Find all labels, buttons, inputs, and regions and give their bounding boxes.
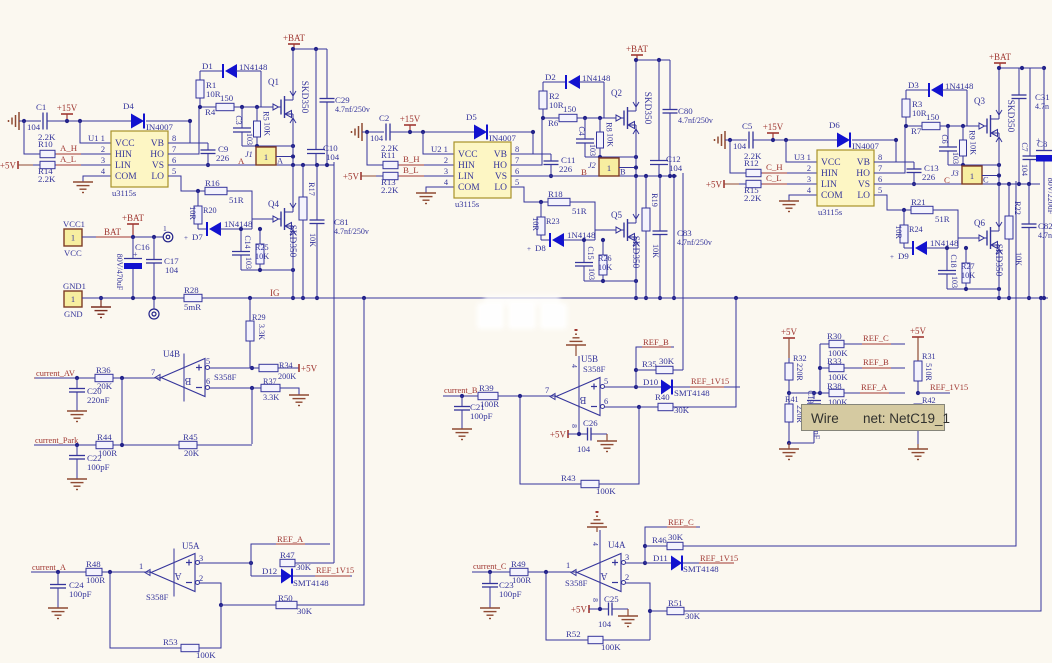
net label A_L [56, 154, 81, 165]
svg-text:1N4148: 1N4148 [567, 230, 596, 240]
power +BAT (BAT node) [122, 213, 145, 237]
junction C9 VS [206, 163, 210, 167]
svg-text:10K: 10K [308, 233, 317, 247]
ground (R41) [779, 443, 799, 460]
svg-text:C15: C15 [586, 246, 595, 259]
wire current_C [472, 571, 510, 573]
junction R44 R45 [120, 443, 124, 447]
capacitor C26 104 [577, 418, 607, 454]
svg-text:R51: R51 [668, 598, 683, 608]
junction R25 bottom [258, 268, 262, 272]
wire VS row [511, 175, 677, 177]
svg-text:1N4148: 1N4148 [582, 73, 611, 83]
junction R35 tap [634, 368, 638, 372]
svg-text:REF_B: REF_B [863, 357, 889, 367]
svg-text:D11: D11 [653, 553, 668, 563]
svg-text:R25: R25 [255, 243, 269, 252]
svg-text:C3: C3 [234, 115, 243, 124]
wire HIN A_H [55, 153, 111, 155]
svg-text:7: 7 [172, 145, 176, 154]
junction VCC tap [78, 119, 82, 123]
svg-text:S358F: S358F [565, 578, 588, 588]
svg-text:HIN: HIN [458, 161, 475, 171]
svg-text:103: 103 [951, 152, 960, 164]
resistor R43 100K [561, 473, 616, 496]
wire VCC pin1 of U1 [80, 121, 111, 143]
svg-text:LIN: LIN [115, 161, 131, 171]
svg-text:R36: R36 [96, 365, 111, 375]
svg-text:R46: R46 [652, 535, 667, 545]
svg-text:R35: R35 [642, 359, 657, 369]
svg-text:5: 5 [172, 167, 176, 176]
wire R21 to gate2 [933, 210, 979, 238]
capacitor C82 4.7nf/250v [1022, 184, 1052, 298]
wire C12 return column [673, 176, 675, 298]
svg-text:1N4148: 1N4148 [239, 62, 268, 72]
diode D4 IN4007 [123, 101, 173, 132]
svg-text:3: 3 [807, 175, 811, 184]
net label REF_1V15 (divider) [929, 383, 968, 393]
wire LIN C_L [761, 183, 817, 185]
junction U5B pin8 [577, 432, 581, 436]
svg-text:HIN: HIN [115, 150, 132, 160]
wire IG bus [82, 297, 184, 299]
resistor R5 10K [254, 107, 272, 146]
junction +BAT C10 [314, 47, 318, 51]
svg-text:C4: C4 [577, 126, 586, 135]
svg-text:1: 1 [566, 561, 570, 570]
wire U5A pin3 [200, 562, 252, 564]
svg-text:10R: 10R [912, 108, 927, 118]
svg-text:20K: 20K [184, 448, 200, 458]
svg-text:30K: 30K [685, 611, 701, 621]
junction R9 top [961, 124, 965, 128]
capacitor C14 103 [232, 229, 253, 270]
svg-text:+: + [133, 250, 138, 259]
svg-text:8: 8 [878, 153, 882, 162]
svg-text:+5V: +5V [301, 364, 318, 374]
wire VCC pin1 of U2 [423, 132, 454, 154]
svg-text:30K: 30K [659, 356, 675, 366]
transistor Q5 SKD350 [611, 176, 640, 298]
junction C24 [56, 570, 60, 574]
net label C_H [762, 162, 787, 173]
svg-text:103: 103 [587, 268, 596, 280]
power +5V (U4A) [571, 605, 589, 615]
svg-text:+5V: +5V [571, 605, 588, 615]
svg-text:2.2K: 2.2K [38, 174, 56, 184]
wire +5V to U5B pin8 [568, 433, 587, 435]
svg-text:220R: 220R [795, 363, 804, 381]
svg-text:+: + [527, 245, 531, 253]
svg-text:C81: C81 [334, 217, 349, 227]
junction D6 VB [894, 138, 898, 142]
svg-text:220nF: 220nF [87, 395, 110, 405]
junction BAT C17 [152, 235, 156, 239]
wire lower source return [947, 288, 999, 290]
svg-text:R52: R52 [566, 629, 581, 639]
wire R16 to gate2 [227, 191, 273, 219]
svg-text:D2: D2 [545, 72, 556, 82]
svg-text:SMT4148: SMT4148 [293, 578, 329, 588]
junction pin3 node C [643, 561, 647, 565]
svg-text:U5A: U5A [182, 541, 200, 551]
power +5V (divider right) [910, 326, 927, 361]
junction R8 top [598, 116, 602, 120]
svg-text:COM: COM [821, 191, 843, 201]
svg-text:Q2: Q2 [611, 88, 622, 98]
wire +5V to R15 [739, 183, 746, 185]
wire sense A vertical [333, 162, 335, 563]
junction node C80 [668, 174, 672, 178]
svg-text:U4A: U4A [608, 540, 626, 550]
resistor R3 10R [902, 99, 927, 126]
ground (input filter B) [352, 123, 363, 141]
junction feedback AV [120, 376, 124, 380]
net label BAT [96, 227, 131, 237]
junction node R22 [1007, 182, 1011, 186]
svg-text:D3: D3 [908, 80, 919, 90]
svg-text:+: + [890, 253, 894, 261]
wire U4A pin3 [626, 562, 646, 564]
svg-text:4.7nf/250v: 4.7nf/250v [678, 116, 713, 125]
svg-text:103: 103 [950, 276, 959, 288]
net label A (left) [238, 156, 245, 166]
wire R37 to ground [280, 388, 299, 395]
svg-text:1N4148: 1N4148 [945, 81, 974, 91]
junction R26 top [601, 238, 605, 242]
junction +15V [65, 119, 69, 123]
svg-text:10K: 10K [255, 252, 269, 261]
wire LO to R18 [511, 187, 548, 202]
svg-text:R32: R32 [793, 354, 807, 363]
resistor R29 3.3K [246, 298, 266, 368]
svg-text:100pF: 100pF [87, 462, 110, 472]
svg-text:104: 104 [370, 133, 384, 143]
svg-text:VCC: VCC [64, 248, 82, 258]
svg-text:R44: R44 [97, 432, 112, 442]
junction BAT C16 [131, 235, 135, 239]
ground (COM) [73, 182, 93, 193]
wire R35 to sense B [673, 369, 683, 371]
junction J stub [291, 154, 295, 158]
wire gate node [940, 125, 979, 127]
wire R34 to +5V [278, 367, 299, 369]
power +5V (divider left) [781, 327, 798, 358]
op-amp driver IC U3 u3115s [794, 150, 882, 217]
svg-text:104: 104 [733, 141, 747, 151]
svg-text:100K: 100K [196, 650, 216, 660]
junction input node [22, 119, 26, 123]
svg-text:6: 6 [206, 377, 210, 386]
junction +BAT Q [634, 58, 638, 62]
svg-text:B: B [184, 375, 191, 386]
capacitor C23 100pF [482, 572, 522, 608]
ground (R37) [289, 395, 309, 406]
wire HIN B_H [398, 164, 454, 166]
wire gate-source upper [242, 145, 293, 147]
pin label A (right) [277, 157, 283, 166]
capacitor C15 103 [575, 240, 596, 281]
diode D9 1N4148 [890, 238, 959, 261]
capacitor C29 4.7nf/250v [320, 49, 370, 165]
wire R48 to U5A out [102, 571, 151, 573]
diode D3 1N4148 [906, 80, 974, 126]
power +15V [763, 122, 784, 140]
svg-text:C7: C7 [1020, 142, 1029, 151]
svg-text:R48: R48 [86, 559, 101, 569]
svg-text:LIN: LIN [821, 180, 837, 190]
svg-text:R43: R43 [561, 473, 576, 483]
svg-text:80V/470uF: 80V/470uF [115, 254, 124, 291]
ground (COM) [779, 201, 799, 212]
svg-text:+BAT: +BAT [989, 52, 1012, 62]
svg-text:u3115s: u3115s [112, 188, 136, 198]
svg-text:5: 5 [878, 186, 882, 195]
svg-text:510R: 510R [924, 363, 933, 381]
svg-text:R26: R26 [598, 254, 612, 263]
junction C11 VS [549, 174, 553, 178]
wire gate-source upper [585, 156, 636, 158]
svg-text:R24: R24 [909, 225, 923, 234]
power +BAT [283, 33, 306, 49]
svg-text:51R: 51R [935, 214, 950, 224]
svg-text:150: 150 [563, 104, 577, 114]
capacitor C5 104 [733, 121, 753, 151]
svg-text:A: A [238, 156, 245, 166]
junction node Q [634, 174, 638, 178]
wire gate node [234, 106, 273, 108]
svg-text:REF_1V15: REF_1V15 [691, 377, 729, 386]
ground (input filter A) [9, 112, 20, 130]
svg-text:R18: R18 [548, 189, 563, 199]
power +BAT [989, 52, 1012, 68]
svg-text:REF_1V15: REF_1V15 [930, 383, 968, 392]
wire gate node [577, 117, 616, 119]
svg-text:R7: R7 [911, 126, 922, 136]
svg-text:C83: C83 [677, 228, 692, 238]
capacitor C6 103 [939, 126, 960, 165]
svg-text:100pF: 100pF [470, 411, 493, 421]
junction source lower [634, 279, 638, 283]
wire current_AV [35, 377, 95, 379]
svg-text:100R: 100R [98, 448, 117, 458]
resistor R7 150 [911, 112, 940, 136]
svg-text:u3115s: u3115s [455, 199, 479, 209]
ground (input filter C) [715, 131, 726, 149]
wire R40 to bus [673, 298, 736, 407]
wire U5A pin2 [200, 583, 222, 605]
junction R20 top [196, 189, 200, 193]
wire B feedback lower [520, 396, 581, 484]
svg-text:3: 3 [625, 553, 629, 562]
capacitor C20 220nF [69, 378, 110, 411]
svg-text:4: 4 [807, 186, 812, 195]
capacitor C1 104 [27, 102, 47, 132]
wire A_H input [24, 121, 40, 154]
net label REF_B (divider) [862, 357, 891, 368]
resistor R10 2.2K [38, 132, 56, 158]
wire R43 to pin6 node [599, 407, 639, 484]
capacitor C31 4.7nf/250v [1012, 68, 1050, 184]
svg-text:B_L: B_L [403, 165, 419, 175]
junction bus R50 return [362, 296, 366, 300]
capacitor C16 80V/470uF [115, 237, 150, 298]
junction source upper [634, 155, 638, 159]
capacitor C17 104 [146, 237, 179, 298]
svg-text:200K: 200K [278, 372, 296, 381]
svg-text:R45: R45 [183, 432, 198, 442]
junction R31 R42 [916, 391, 920, 395]
junction feedback B [518, 394, 522, 398]
wire sense B vertical [682, 173, 684, 370]
svg-text:2: 2 [101, 145, 105, 154]
resistor R36 20K [95, 365, 113, 391]
svg-text:J2: J2 [588, 161, 596, 170]
junction node Q [997, 182, 1001, 186]
diode D11 SMT4148 [645, 553, 730, 574]
resistor R19 10K [642, 176, 660, 298]
ground (C26) [597, 434, 617, 452]
svg-text:Wire: Wire [811, 411, 839, 426]
junction node R17 [301, 163, 305, 167]
junction source lower [291, 268, 295, 272]
svg-text:104: 104 [1020, 164, 1029, 176]
svg-text:2: 2 [625, 573, 629, 582]
wire LIN B_L [398, 175, 454, 177]
wire LIN A_L [55, 164, 111, 166]
svg-text:150: 150 [926, 112, 940, 122]
junction C19 top [812, 391, 816, 395]
resistor R33 100K [820, 356, 848, 382]
ground (C20) [67, 411, 87, 422]
svg-text:D10: D10 [643, 377, 659, 387]
net label current_C [472, 562, 507, 572]
net label IG [270, 288, 280, 298]
ground (C22) [67, 479, 87, 490]
wire R36 to U4B out [113, 377, 161, 379]
resistor R25 10K [255, 229, 269, 270]
junction R27 bottom [964, 287, 968, 291]
svg-text:1: 1 [607, 163, 611, 173]
svg-text:4: 4 [570, 364, 579, 368]
net label REF_1V15 (C) [699, 554, 738, 563]
svg-text:REF_1V15: REF_1V15 [700, 554, 738, 563]
svg-text:REF_C: REF_C [863, 333, 889, 343]
svg-text:R16: R16 [205, 178, 220, 188]
resistor R28 5mR [184, 285, 202, 312]
svg-text:5: 5 [604, 377, 608, 386]
wire lower source return [584, 280, 636, 282]
svg-text:IG: IG [270, 288, 280, 298]
wire input to C1 [19, 120, 41, 122]
svg-text:REF_A: REF_A [861, 382, 888, 392]
capacitor C7 104 [1020, 68, 1038, 184]
svg-text:S358F: S358F [583, 364, 606, 374]
svg-text:R31: R31 [922, 352, 936, 361]
svg-text:+5V: +5V [706, 180, 723, 190]
svg-text:SKD350: SKD350 [299, 81, 309, 114]
junction C13 VS [912, 182, 916, 186]
op-amp U5B S358F [545, 354, 608, 434]
svg-text:LO: LO [857, 191, 870, 201]
net label C_L [762, 173, 787, 184]
junction +15V [408, 130, 412, 134]
svg-text:R4: R4 [205, 107, 216, 117]
svg-text:+15V: +15V [57, 103, 78, 113]
resistor R35 30K [636, 356, 675, 374]
svg-text:100K: 100K [596, 486, 616, 496]
svg-text:current_AV: current_AV [36, 369, 75, 378]
svg-text:10R: 10R [188, 206, 197, 220]
wire +BAT rail [293, 48, 327, 50]
wire +5V to U4A pin8 [589, 608, 608, 610]
svg-text:U5B: U5B [581, 354, 598, 364]
junction D4 VB [188, 119, 192, 123]
svg-text:GND1: GND1 [63, 281, 86, 291]
junction R41 C19 [787, 441, 791, 445]
capacitor C2 104 [370, 113, 390, 143]
op-amp U4B S358F [151, 349, 237, 402]
junction C3 top [240, 105, 244, 109]
svg-text:104: 104 [27, 122, 41, 132]
svg-text:104: 104 [165, 265, 179, 275]
test point TP1 [163, 224, 173, 242]
junction C23 [488, 570, 492, 574]
wire VB row [874, 161, 914, 163]
junction R23 top [539, 200, 543, 204]
tooltip Wire net: NetC19_1 [802, 405, 951, 431]
svg-text:A: A [600, 570, 608, 581]
svg-text:SKD350: SKD350 [287, 225, 297, 258]
resistor R26 10K [598, 240, 612, 281]
wire lower source return [241, 269, 293, 271]
svg-text:COM: COM [458, 183, 480, 193]
junction bus C16 [131, 296, 135, 300]
ground (GND1) [91, 298, 111, 318]
wire pin6 to R45 [251, 387, 253, 444]
junction node C81 [315, 163, 319, 167]
capacitor C22 100pF [69, 445, 110, 479]
wire +5V to R14 [33, 164, 40, 166]
wire LO to R16 [168, 176, 205, 191]
junction C21 [460, 394, 464, 398]
svg-text:J3: J3 [951, 169, 959, 178]
connector J3 [951, 166, 982, 184]
svg-text:3: 3 [444, 167, 448, 176]
wire U5B pin6 [605, 406, 640, 408]
svg-text:1: 1 [139, 562, 143, 571]
svg-text:51R: 51R [229, 195, 244, 205]
wire VB row [168, 142, 208, 144]
wire LO to R21 [874, 195, 911, 210]
svg-text:R47: R47 [280, 550, 295, 560]
svg-text:C82: C82 [1038, 221, 1052, 231]
junction node C31 [1017, 182, 1021, 186]
svg-text:R29: R29 [252, 313, 266, 322]
diode D6 IN4007 [829, 120, 879, 151]
connector VCC1 [63, 219, 85, 258]
svg-text:SKD350: SKD350 [993, 244, 1003, 277]
wire B_H input [367, 132, 383, 165]
junction node C12 return [672, 174, 676, 178]
resistor R50 30K [276, 593, 313, 616]
svg-text:R37: R37 [263, 377, 277, 386]
diode D12 SMT4148 [251, 566, 352, 588]
power +5V input [0, 161, 33, 171]
wire U4B pin5 [210, 367, 253, 369]
svg-text:6: 6 [604, 397, 608, 406]
